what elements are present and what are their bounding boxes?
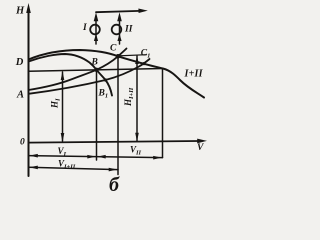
paper background [0,0,215,196]
network curve R1 through B and C [29,49,127,91]
svg-text:H: H [15,6,25,17]
pump II bottom arrowhead [117,34,121,41]
svg-text:B: B [91,58,98,68]
point C [116,54,121,59]
header pipe arrowhead [138,9,147,14]
svg-text:I: I [82,23,87,33]
pump I bottom arrowhead [94,34,98,41]
svg-text:I+II: I+II [184,69,204,80]
svg-text:0: 0 [20,138,25,148]
svg-text:б: б [109,174,120,196]
pump header pipe [96,11,140,12]
svg-text:II: II [124,25,133,35]
vertical line from C to V_I+II row [117,56,119,174]
H_I+II dimension arrow [136,56,138,141]
pump I flow arrow shaft [95,19,97,44]
point B1 [104,78,107,81]
pump I top arrowhead [94,12,99,21]
X axis V [29,141,200,143]
svg-text:A: A [16,89,24,100]
V_I / V_II dimension row [29,156,163,158]
pump II flow arrow shaft [119,19,121,44]
V_I+II dimension row [29,167,119,169]
pump II circle [112,25,122,35]
X axis arrowhead [197,139,207,144]
combined pump curve I+II [29,50,205,98]
svg-text:C: C [110,44,117,54]
point B [94,68,98,72]
svg-text:V: V [197,143,204,153]
individual pump curve I [29,54,113,96]
Y axis arrowhead [26,3,31,13]
horizontal line through B to I+II curve [29,69,163,72]
H_I dimension arrow [62,72,64,141]
svg-text:D: D [15,57,24,68]
point C1 [142,62,145,65]
vertical line from I+II curve end of line L1 [162,69,164,158]
Y axis H [28,10,30,176]
horizontal line at C level [118,55,147,56]
pump I circle [90,25,100,35]
network curve R2 through B1 and C1 [29,59,150,94]
vertical line from B to V axis row [96,70,98,160]
pump II top arrowhead [117,12,122,21]
